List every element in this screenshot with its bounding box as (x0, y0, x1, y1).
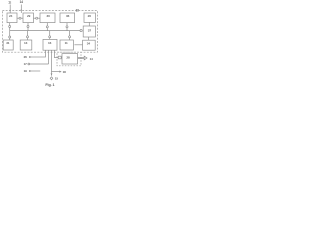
arrow down end of cable 3 (51, 73, 53, 75)
svg-text:24: 24 (9, 14, 13, 18)
dashed sub-enclosure around 28 (57, 52, 81, 66)
wire 26 down to 37 (88, 22, 90, 26)
svg-text:31: 31 (6, 41, 10, 45)
block 28 (62, 54, 78, 64)
wire bus to block 37 with terminal circle (80, 30, 82, 32)
svg-text:37: 37 (88, 29, 92, 33)
arrow 18 from cable (52, 71, 62, 73)
wire 29-30 with junction (34, 17, 41, 19)
wire 29 to bus (27, 23, 29, 31)
dashed enclosure 10 (2, 11, 97, 53)
svg-text:18: 18 (63, 70, 67, 74)
svg-text:Fig. 1: Fig. 1 (45, 83, 54, 87)
svg-text:12: 12 (8, 0, 12, 4)
block 29 (23, 13, 34, 23)
block 16 (43, 39, 57, 50)
arrow out of 28 (78, 56, 87, 60)
block 24 (7, 13, 17, 23)
wire input arrow 14 (21, 5, 22, 14)
wire 36 to bus (66, 23, 68, 31)
wire 24 to bus (9, 23, 11, 40)
wire 37 down to 34 (88, 37, 90, 40)
svg-text:36: 36 (66, 14, 70, 18)
block 13 (20, 40, 32, 50)
block 37 (83, 26, 95, 37)
cable line 4 to block 28 (55, 50, 63, 57)
wire bus to block 11 (69, 31, 71, 40)
svg-text:29: 29 (27, 14, 31, 18)
cable line 1 (45, 50, 47, 57)
block 26 (84, 13, 95, 22)
wire into block 34 (74, 44, 82, 46)
cable line 3 (51, 50, 53, 75)
block 34 (83, 40, 96, 50)
svg-text:14: 14 (20, 0, 24, 4)
leader 17 (28, 63, 49, 65)
wire 24-29 with junction (17, 17, 23, 19)
block 11 (60, 40, 73, 50)
cable line 2 (48, 50, 50, 64)
block 36 (60, 13, 75, 23)
svg-text:26: 26 (88, 14, 92, 18)
block 31 (3, 40, 13, 50)
leader 19 (29, 70, 40, 72)
svg-text:15: 15 (55, 76, 59, 80)
wire 30 to bus (46, 23, 48, 31)
svg-text:14: 14 (90, 57, 94, 61)
wire input arrow 12 (10, 5, 11, 14)
svg-text:11: 11 (65, 41, 68, 45)
svg-text:30: 30 (47, 14, 51, 18)
svg-text:13: 13 (24, 41, 28, 45)
svg-text:34: 34 (87, 42, 91, 46)
terminal diamond 15 (50, 77, 53, 80)
svg-text:10: 10 (76, 9, 80, 13)
svg-text:28: 28 (66, 56, 70, 60)
connector block on cable 4 (58, 56, 61, 59)
svg-text:17: 17 (24, 62, 28, 66)
svg-text:16: 16 (48, 41, 52, 45)
wire bus to block 16 (49, 31, 51, 40)
svg-text:26: 26 (24, 55, 28, 59)
block 30 (40, 13, 55, 23)
wire bus to block 13 (27, 31, 29, 40)
leader 26 (29, 56, 46, 58)
wire bus horizontal (10, 30, 80, 32)
svg-text:19: 19 (24, 69, 28, 73)
